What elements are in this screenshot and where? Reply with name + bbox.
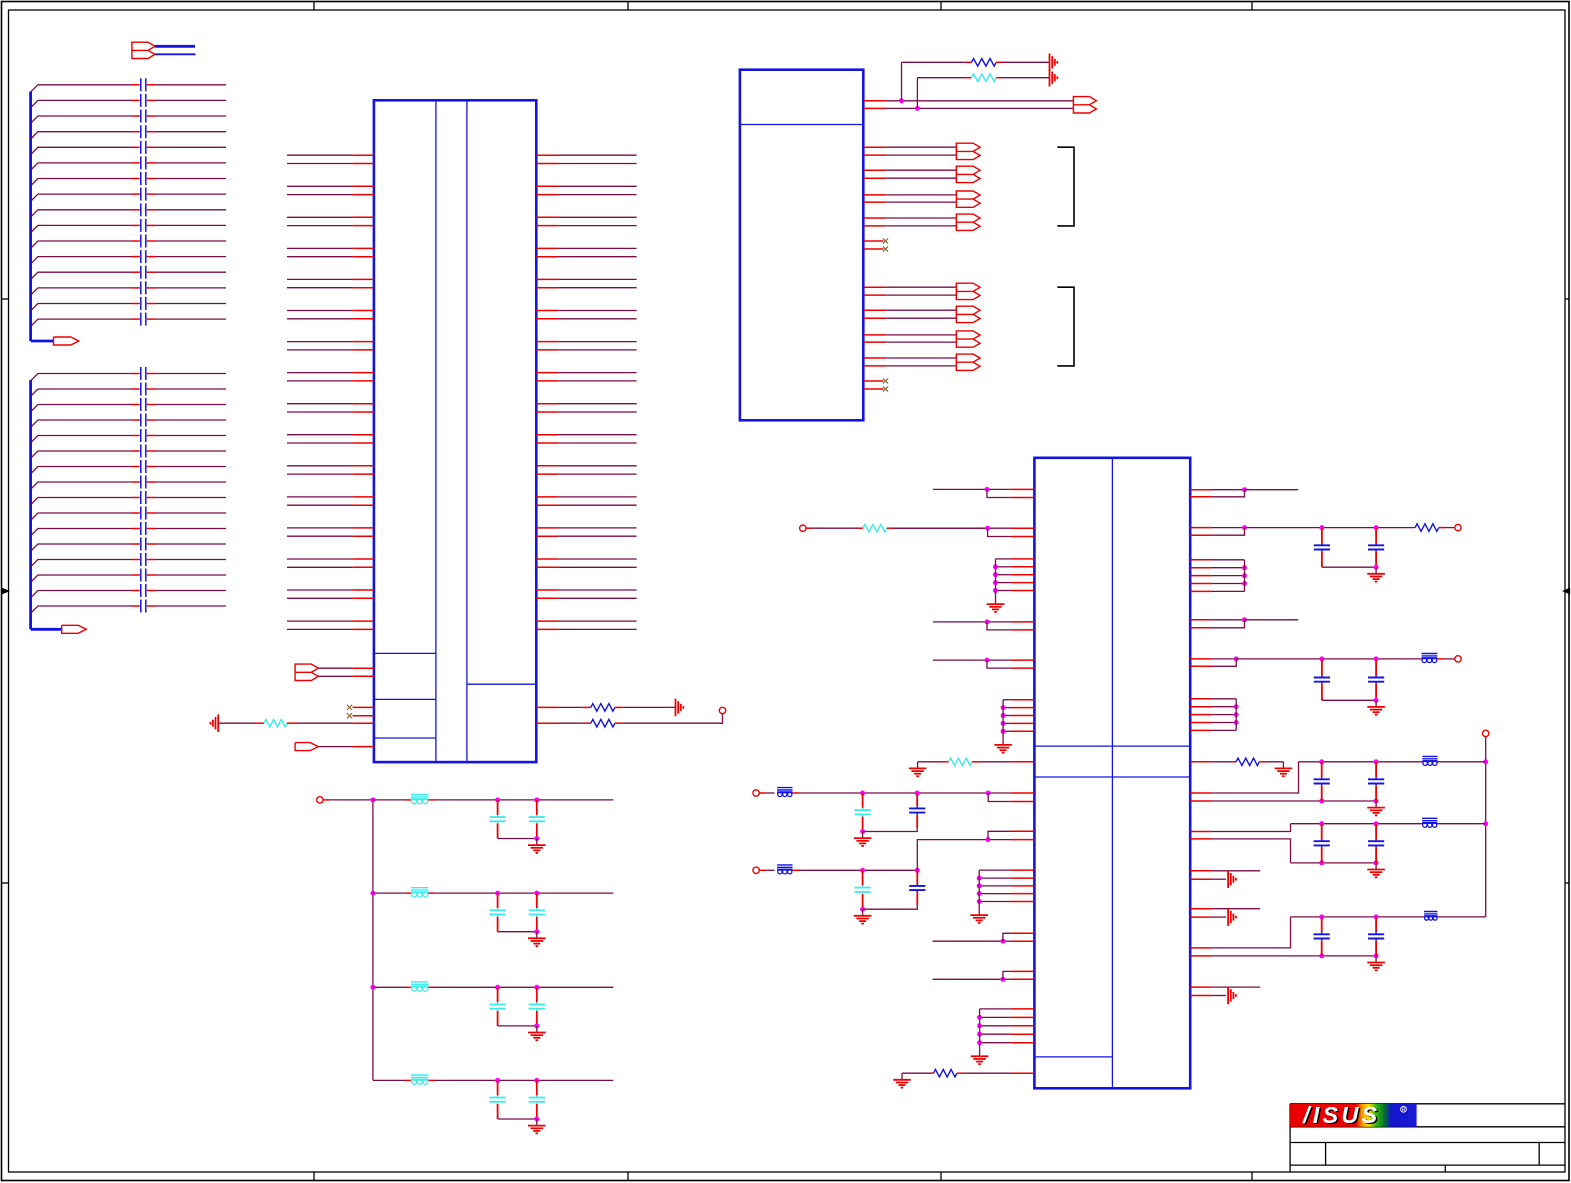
- pin J1 left 30: [352, 597, 374, 599]
- wire row 6 right (group2): [156, 450, 226, 452]
- ground GND9: [1375, 700, 1377, 707]
- junction row2 c2: [534, 891, 539, 896]
- ferrite bead FB7 (cyan): [405, 799, 411, 801]
- pin J1 right 12: [536, 318, 558, 320]
- pin J1 right 31: [536, 620, 558, 622]
- pin U1 right LR1a: [1190, 792, 1212, 794]
- wire bus tap row 10 (group2): [31, 513, 132, 520]
- wire LR2 top rail: [1291, 823, 1423, 825]
- capacitor C114 series (group1 row 15): [132, 303, 140, 305]
- junction row4 d: [534, 1117, 539, 1122]
- pin J1 left 24: [352, 504, 374, 506]
- ground GND8: [1375, 567, 1377, 574]
- wire LP4 in: [933, 659, 987, 661]
- wire bus tap row 8 (group2): [31, 482, 132, 489]
- pin J1 left 27: [352, 558, 374, 560]
- wire row 15 right (group1): [156, 303, 226, 305]
- junction LP2: [985, 526, 990, 531]
- wire J1 right pin pair5a: [558, 278, 636, 280]
- pin U1 left L5G3 5: [1011, 901, 1035, 903]
- pin U1 right GP1a: [1190, 870, 1212, 872]
- wire bus tap row 3 (group2): [31, 405, 132, 412]
- wire ladder row2 b: [435, 892, 614, 894]
- wire row 11 right (group1): [156, 240, 226, 242]
- pin U1 left L5G4 5: [1011, 1042, 1035, 1044]
- pin J1 left 29: [352, 589, 374, 591]
- pin U1 left L5G2 3: [1011, 715, 1035, 717]
- net stub open circle N2: [719, 707, 725, 713]
- pin J2 groupA 3a: [863, 194, 886, 196]
- wire RP3 out: [1212, 619, 1245, 621]
- capacitor C207 series (group2 row 8): [132, 481, 140, 483]
- wire bus tap row 14 (group1): [31, 288, 132, 295]
- pin J1 right 28: [536, 566, 558, 568]
- wire J1 left pin pair7a: [287, 341, 352, 343]
- wire row 9 right (group2): [156, 497, 226, 499]
- port P8-3 (double arrow groupB): [956, 331, 980, 347]
- wire J1 left pin pair12a: [287, 496, 352, 498]
- pin U1 left L5G1 1: [1011, 558, 1035, 560]
- pin J2 right 1: [863, 100, 886, 102]
- pin J1 left 12: [352, 318, 374, 320]
- wire R5G1 5: [1212, 590, 1245, 592]
- wire LR1 top rail: [1299, 761, 1423, 763]
- pin U1 right LR2a: [1190, 831, 1212, 833]
- wire row 8 right (group2): [156, 481, 226, 483]
- pin U1 left L5G3 3: [1011, 885, 1035, 887]
- wire L5G3 5: [979, 901, 1010, 903]
- capacitor C211 series (group2 row 12): [132, 543, 140, 545]
- wire row 5 right (group1): [156, 146, 226, 148]
- resistor R4 (blue): [965, 61, 971, 63]
- capacitor C201 series (group2 row 2): [132, 388, 140, 390]
- wire bus tap row 8 (group1): [31, 194, 132, 201]
- title block line under logo: [1290, 1126, 1565, 1128]
- wire J1 right pin pair15a: [558, 589, 636, 591]
- pin J2 groupA 3b: [863, 201, 886, 203]
- wire J1 right pin pair13b: [558, 535, 636, 537]
- connector J1 left section divider 1: [374, 652, 436, 654]
- wire GP2a: [1212, 986, 1260, 988]
- port P2 (bus name): [54, 337, 79, 345]
- ground GND11: [1375, 801, 1377, 808]
- wire J1 right pin pair8b: [558, 380, 636, 382]
- junction L5G1 2: [993, 564, 998, 569]
- connector J1 left section divider 2: [374, 698, 436, 700]
- svg-text:R: R: [1402, 1107, 1406, 1113]
- capacitor C209 series (group2 row 10): [132, 512, 140, 514]
- pin J1 right 15: [536, 372, 558, 374]
- capacitor C18 (cyan): [536, 800, 538, 815]
- wire ladder row2 a: [373, 892, 405, 894]
- wire row3 cap rail: [498, 1025, 537, 1027]
- pin U1 right RP2b: [1190, 534, 1212, 536]
- junction L5G2 3: [1001, 713, 1006, 718]
- pin U1 left LP7a: [1011, 932, 1035, 934]
- junction row2 d: [534, 929, 539, 934]
- capacitor C4 (blue): [916, 793, 918, 806]
- wire J2 groupB 1a: [886, 286, 956, 288]
- pin J2 groupA 2a: [863, 169, 886, 171]
- wire L5G1 5: [996, 590, 1011, 592]
- pin U1 right RP4a: [1190, 658, 1212, 660]
- wire GP1a: [1212, 870, 1260, 872]
- wire R5G1 2: [1212, 567, 1245, 569]
- pin U1 left R7: [1011, 1072, 1035, 1074]
- wire R3 to stub: [623, 714, 722, 723]
- wire bus tap row 9 (group2): [31, 498, 132, 505]
- wire R5G2 5: [1212, 729, 1236, 731]
- wire row B main: [799, 869, 917, 871]
- pin J1 left 21: [352, 465, 374, 467]
- wire J1 left pin pair11a: [287, 465, 352, 467]
- pin J2 right 2: [863, 107, 886, 109]
- wire J1 right pin pair9a: [558, 403, 636, 405]
- ground GND17 (right-pointing): [1227, 908, 1229, 926]
- wire bus tap row 15 (group2): [31, 591, 132, 598]
- junction L5G2 5: [1001, 729, 1006, 734]
- junction LR3 c2: [1374, 914, 1379, 919]
- wire FB6 to trunk corner: [1438, 916, 1486, 918]
- wire J2 groupA 4a: [886, 217, 956, 219]
- junction row3 c2: [534, 985, 539, 990]
- power net open circle N7: [1455, 656, 1461, 662]
- wire R5G2 2: [1212, 706, 1236, 708]
- wire row 16 right (group2): [156, 605, 226, 607]
- junction C8 bottom: [1374, 565, 1379, 570]
- pin J1 right 4: [536, 194, 558, 196]
- bus B3 corner to port: [31, 628, 62, 631]
- wire L5G1 1: [996, 558, 1011, 560]
- wire J2 groupB 1b: [886, 294, 956, 296]
- wire LP6 step: [988, 831, 1011, 839]
- wire RP2 step: [1212, 528, 1245, 536]
- wire row2 cap rail: [498, 931, 537, 933]
- resistor R9 (blue): [1232, 761, 1236, 763]
- ferrite bead FB2 (blue): [777, 865, 792, 867]
- pin U1 left LP2a: [1011, 527, 1035, 529]
- wire RP4 out: [1212, 658, 1236, 660]
- junction LR3 c1: [1319, 914, 1324, 919]
- capacitor C9 (blue): [1321, 659, 1323, 675]
- wire row 6 right (group1): [156, 162, 226, 164]
- wire L5G4 1: [980, 1008, 1011, 1010]
- wire RP3 step: [1212, 620, 1245, 628]
- pin U1 left LP4b: [1011, 667, 1035, 669]
- pin J2 groupA 1a: [863, 146, 886, 148]
- junction RP4 c1: [1319, 656, 1324, 661]
- wire GP2b: [1212, 995, 1226, 997]
- wire row B: [759, 869, 765, 871]
- ground L5G1 GND: [995, 598, 997, 605]
- wire row 4 right (group1): [156, 131, 226, 133]
- port P7-4 (double arrow groupA): [956, 214, 980, 230]
- junction L5G2 4: [1001, 721, 1006, 726]
- pin U1 right R5G2 1: [1190, 698, 1212, 700]
- junction J2 net2: [915, 106, 920, 111]
- capacitor C115 series (group1 row 16): [132, 318, 140, 320]
- junction LP1: [985, 487, 990, 492]
- junction C3 bottom: [860, 829, 865, 834]
- junction R5G1 3: [1242, 573, 1247, 578]
- bracket groupB: [1057, 287, 1074, 366]
- wire L5G2 1: [1003, 699, 1011, 701]
- wire bus tap row 10 (group1): [31, 225, 132, 232]
- wire LP7 in: [933, 940, 1003, 942]
- pin U1 right LR3a: [1190, 947, 1212, 949]
- pin U1 left LP7b: [1011, 940, 1035, 942]
- wire R5G1 4: [1212, 583, 1245, 585]
- pin J1 left 22: [352, 473, 374, 475]
- wire J1 right pin pair10b: [558, 442, 636, 444]
- wire R5G2 1: [1212, 698, 1236, 700]
- pin J1 left port 2: [352, 675, 374, 677]
- port P3 (bus name): [62, 625, 86, 633]
- junction trunk row2: [1483, 821, 1488, 826]
- junction row3 d: [534, 1023, 539, 1028]
- port P8-4 (double arrow groupB): [956, 354, 980, 370]
- wire row A: [759, 792, 765, 794]
- wire R8 to circle: [1445, 527, 1455, 529]
- wire LP3 in: [933, 621, 987, 623]
- wire C6 bottom L: [863, 906, 918, 910]
- ferrite bead FB10 (cyan): [405, 1079, 411, 1081]
- pin J1 right 27: [536, 558, 558, 560]
- pin J2 groupB 4a: [863, 357, 886, 359]
- ground GND2 (right-pointing): [675, 699, 677, 717]
- wire bus tap row 1 (group2): [31, 374, 132, 381]
- wire GP1b: [1212, 878, 1226, 880]
- ground GND12: [1375, 863, 1377, 870]
- junction L5G3 2: [977, 876, 982, 881]
- wire bus tap row 4 (group2): [31, 420, 132, 427]
- wire J2 groupB 4a: [886, 357, 956, 359]
- capacitor C101 series (group1 row 2): [132, 99, 140, 101]
- pin J1 right 13: [536, 341, 558, 343]
- wire L5G1 4: [996, 582, 1011, 584]
- wire LR3 bottom rail: [1212, 955, 1376, 957]
- wire bus tap row 3 (group1): [31, 116, 132, 123]
- ferrite bead FB3 (blue): [1422, 654, 1438, 656]
- wire J1 right pin pair8a: [558, 372, 636, 374]
- ground GND5: [862, 832, 864, 839]
- pin J2 groupA 1b: [863, 154, 886, 156]
- wire RP2 out: [1212, 527, 1245, 529]
- wire J1 right pin pair10a: [558, 434, 636, 436]
- wire J2 groupA 2a: [886, 169, 956, 171]
- capacitor C111 series (group1 row 12): [132, 256, 140, 258]
- pin J1 left 15: [352, 372, 374, 374]
- pin J1 right 29: [536, 589, 558, 591]
- junction LR2 c2: [1374, 821, 1379, 826]
- junction row B c2: [915, 868, 920, 873]
- wire port P4 line 2: [318, 675, 352, 677]
- IC U1 divider lower: [1034, 776, 1190, 778]
- wire J1 left pin pair15a: [287, 589, 352, 591]
- ground GND3 (right-pointing): [1049, 54, 1051, 72]
- port P8-1 (double arrow groupB): [956, 283, 980, 299]
- pin U1 right LR2b: [1190, 838, 1212, 840]
- wire L5G4 2: [980, 1016, 1011, 1018]
- wire RP1 out: [1212, 489, 1245, 491]
- junction L5G3 4: [977, 891, 982, 896]
- junction L5G4 3: [977, 1023, 982, 1028]
- wire row 15 right (group2): [156, 590, 226, 592]
- wire port P5: [318, 746, 352, 748]
- pin J1 right 23: [536, 496, 558, 498]
- capacitor C13 (blue): [1321, 824, 1323, 839]
- power net open circle N9: [317, 797, 323, 803]
- wire J1 left pin pair7b: [287, 349, 352, 351]
- pin U1 right GP1b: [1190, 878, 1212, 880]
- pin J1 right 6: [536, 225, 558, 227]
- wire J1 left pin pair5b: [287, 287, 352, 289]
- pin U1 left L5G3 4: [1011, 893, 1035, 895]
- pin U1 right R5G2 2: [1190, 706, 1212, 708]
- wire J2 groupA 1b: [886, 154, 956, 156]
- wire net2 to R5: [917, 77, 965, 79]
- pin J2 groupB 1a: [863, 286, 886, 288]
- wire N9 stub: [323, 799, 329, 801]
- capacitor C208 series (group2 row 9): [132, 497, 140, 499]
- ferrite bead FB6 (blue): [1424, 912, 1437, 914]
- wire J1 left pin pair13a: [287, 527, 352, 529]
- svg-text:/ISUS: /ISUS: [1302, 1102, 1380, 1128]
- resistor R2 (blue): [582, 706, 591, 708]
- pin U1 right RP3b: [1190, 627, 1212, 629]
- junction L5G2 2: [1001, 705, 1006, 710]
- wire R1 left: [218, 722, 253, 724]
- capacitor C20 (cyan): [536, 893, 538, 908]
- wire J1 left pin pair8b: [287, 380, 352, 382]
- junction LP3: [985, 619, 990, 624]
- wire bus tap row 11 (group2): [31, 529, 132, 536]
- border center arrow left: [2, 589, 9, 594]
- junction RP4: [1234, 656, 1239, 661]
- pin U1 left L5G4 2: [1011, 1016, 1035, 1018]
- title block line 2: [1290, 1142, 1565, 1144]
- wire R10 left: [918, 761, 941, 763]
- wire R5G1 3: [1212, 575, 1245, 577]
- junction row1 d: [534, 836, 539, 841]
- connector J2 top divider: [740, 124, 863, 126]
- wire J1 left pin pair4a: [287, 247, 352, 249]
- capacitor C203 series (group2 row 4): [132, 419, 140, 421]
- capacitor C6 (blue): [916, 870, 918, 883]
- junction L5G4 4: [977, 1032, 982, 1037]
- wire bus tap row 5 (group1): [31, 147, 132, 154]
- junction row A pin: [986, 791, 991, 796]
- pin J1 right 32: [536, 628, 558, 630]
- pin U1 left L5G1 4: [1011, 582, 1035, 584]
- wire J1 right pin pair11b: [558, 473, 636, 475]
- wire row 14 right (group2): [156, 574, 226, 576]
- pin J1 left 7: [352, 247, 374, 249]
- junction R5G2 2: [1234, 704, 1239, 709]
- pin J1 left 32: [352, 628, 374, 630]
- pin U1 left L5G4 3: [1011, 1025, 1035, 1027]
- pin U1 right R9: [1190, 761, 1212, 763]
- capacitor C103 series (group1 row 4): [132, 131, 140, 133]
- capacitor C19 (cyan): [497, 893, 499, 908]
- port P5 (single arrow at J1 bottom-left): [295, 743, 318, 751]
- wire LP1 in: [933, 488, 987, 490]
- power net open circle N4 (row A): [753, 790, 759, 796]
- pin U1 left L5G1 5: [1011, 590, 1035, 592]
- wire J1 left pin pair9b: [287, 411, 352, 413]
- wire LP1 step: [987, 489, 1011, 497]
- wire L5G3 3: [979, 885, 1010, 887]
- wire L5G3 gnd stem: [978, 902, 980, 909]
- pin J1 left 2: [352, 163, 374, 165]
- pin U1 right R5G1 5: [1190, 590, 1212, 592]
- pin J1 right 8: [536, 256, 558, 258]
- resistor R7 (blue): [930, 1072, 934, 1074]
- wire row 13 right (group2): [156, 559, 226, 561]
- wire bus tap row 9 (group1): [31, 210, 132, 217]
- wire L5G2 4: [1003, 722, 1011, 724]
- wire J1 right pin pair1a: [558, 154, 636, 156]
- ground GND4 (right-pointing): [1049, 69, 1051, 87]
- bracket groupA: [1057, 147, 1074, 226]
- no-connect X pin J2 nc1: [863, 240, 883, 242]
- junction row3 c1: [495, 985, 500, 990]
- port P8-2 (double arrow groupB): [956, 306, 980, 322]
- pin U1 right R5G1 2: [1190, 567, 1212, 569]
- junction L5G4 2: [977, 1015, 982, 1020]
- pin U1 right R5G1 4: [1190, 583, 1212, 585]
- bus B1 segment: [155, 45, 195, 48]
- pin J2 groupA 2b: [863, 177, 886, 179]
- wire bus tap row 12 (group1): [31, 257, 132, 264]
- no-connect X pin J2 nc4: [863, 388, 883, 390]
- wire L5G3 4: [979, 893, 1010, 895]
- wire ladder row3 b: [435, 986, 614, 988]
- wire J1 right pin pair5b: [558, 287, 636, 289]
- ground GND16L (down) at R10 left: [917, 762, 919, 769]
- wire LR3 riser: [1212, 917, 1291, 948]
- wire ladder row1 a: [373, 799, 405, 801]
- ferrite bead FB1 (blue): [777, 788, 792, 790]
- wire row 7 right (group1): [156, 178, 226, 180]
- pin J1 left 17: [352, 403, 374, 405]
- wire row 7 right (group2): [156, 466, 226, 468]
- capacitor C105 series (group1 row 6): [132, 162, 140, 164]
- pin J1 right 25: [536, 527, 558, 529]
- wire trunk right: [1485, 737, 1487, 917]
- pin J1 left 16: [352, 380, 374, 382]
- junction L5G4 5: [977, 1040, 982, 1045]
- resistor R3 (blue): [582, 722, 591, 724]
- wire L5G1 gnd stem: [995, 591, 997, 598]
- junction RP3: [1242, 617, 1247, 622]
- wire RP2 ladder: [1245, 527, 1416, 529]
- capacitor C106 series (group1 row 7): [132, 178, 140, 180]
- junction L5G1 5: [993, 588, 998, 593]
- ferrite bead FB4 (blue): [1422, 756, 1437, 758]
- capacitor C10 (blue): [1375, 659, 1377, 675]
- capacitor C100 series (group1 row 1): [132, 84, 140, 86]
- bus B2 corner to port: [31, 340, 54, 343]
- wire J1 left pin pair9a: [287, 403, 352, 405]
- port P1 (bus off-page, double arrow): [132, 42, 155, 58]
- wire LP5 step: [988, 793, 1010, 802]
- wire row 1 right (group1): [156, 84, 226, 86]
- pin U1 left LP1a: [1011, 488, 1035, 490]
- wire R7 left: [902, 1072, 930, 1074]
- junction RP2: [1242, 525, 1247, 530]
- junction row1 c1: [495, 797, 500, 802]
